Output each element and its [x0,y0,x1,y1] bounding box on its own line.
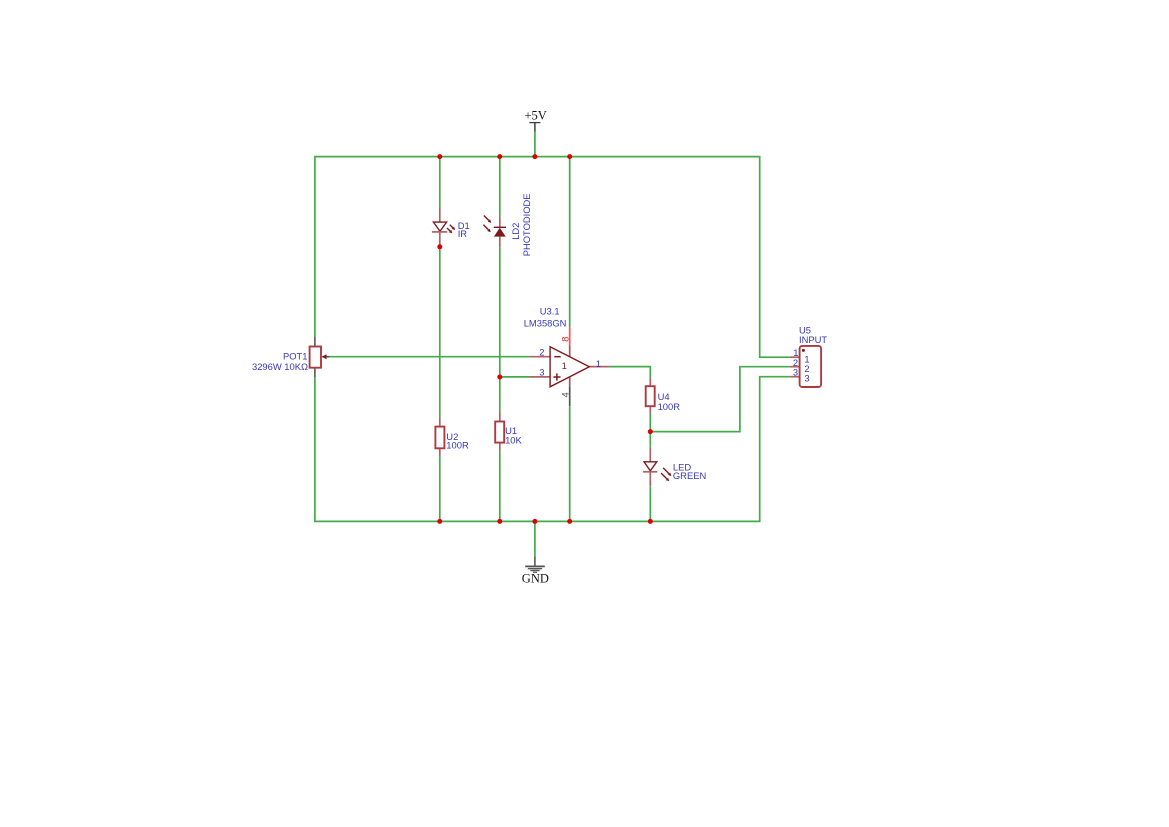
op-amp pin 3 stub [530,376,550,378]
LED GREEN [643,447,706,486]
svg-text:4: 4 [559,392,570,397]
svg-text:100R: 100R [446,439,469,450]
svg-text:3: 3 [539,367,544,378]
U5 pin1 marker dot [802,349,805,352]
power flag +5V [525,108,547,131]
wire op-amp pin8 supply [569,157,571,328]
wire D1 to U2 [439,247,441,418]
ground GND [522,556,549,585]
svg-text:PHOTODIODE: PHOTODIODE [521,193,532,256]
junction bottom rail at U1 [497,519,502,524]
wire LED lower [649,486,651,521]
op-amp pin 2 stub [530,356,550,358]
junction top rail at pin8 [567,154,572,159]
wire D1 branch upper [439,157,441,208]
op-amp minus sign [554,356,560,358]
wire U1 lower [499,451,501,521]
resistor U1 10K [495,412,522,451]
junction top rail at LD2 [497,154,502,159]
svg-text:1: 1 [596,358,601,369]
svg-text:3: 3 [804,372,809,383]
U5 pin stub 3 [790,376,800,378]
U5 pin stub 1 [790,356,800,358]
junction bottom rail at pin4 [567,519,572,524]
wire left lower + bottom rail + U5 pin3 feed [315,377,790,522]
svg-text:U3.1: U3.1 [540,306,560,317]
svg-text:100R: 100R [658,401,681,412]
svg-text:LD2: LD2 [510,223,521,240]
wire POT1 wiper to pin2 [329,356,530,358]
svg-text:POT1: POT1 [283,350,308,361]
wire U1 node to pin3 [500,376,530,378]
junction top rail at +5V [532,154,537,159]
svg-text:3296W 10KΩ: 3296W 10KΩ [252,361,308,372]
junction bottom rail at U2 [437,519,442,524]
wire +5V stub [534,132,536,157]
potentiometer POT1 [252,337,329,377]
U5 pin stub 2 [790,366,800,368]
svg-text:2: 2 [539,347,544,358]
resistor U2 100R [435,418,469,457]
svg-text:+5V: +5V [525,108,547,122]
wire LD2 branch upper [499,157,501,217]
junction U1 node pin3 [497,375,502,380]
connector U5 INPUT [790,325,828,387]
wire GND stub [534,521,536,556]
svg-text:1: 1 [562,360,567,371]
junction top rail at D1 [437,154,442,159]
junction bottom rail at LED [648,519,653,524]
svg-text:GREEN: GREEN [673,470,706,481]
junction U4 LED node [648,429,653,434]
wire op-amp output to U4 [610,367,650,378]
wire node to U5 pin2 [650,367,790,432]
svg-text:INPUT: INPUT [799,334,827,345]
junction bottom rail at GND [532,519,537,524]
svg-text:IR: IR [458,228,468,239]
wire op-amp pin4 down [569,406,571,521]
diode D1 IR LED [432,207,470,247]
wire U4 to node [649,414,651,448]
svg-text:GND: GND [522,572,549,586]
op-amp plus sign [553,376,560,378]
op-amp pin 1 output stub [589,366,610,368]
junction D1 cathode [437,244,442,249]
svg-text:10K: 10K [505,435,522,446]
svg-text:8: 8 [560,337,571,342]
wire top rail + left upper + U5 pin1 feed [315,157,790,358]
op-amp U3.1 LM358GN [524,306,610,407]
wire U2 lower [439,456,441,521]
op-amp pin 4 segment [569,376,571,386]
resistor U4 100R [646,378,681,414]
photodiode LD2 [483,193,532,256]
svg-text:3: 3 [793,367,798,378]
wire LD2 to U1 [499,247,501,412]
svg-text:LM358GN: LM358GN [524,318,567,329]
op-amp pin 8 segment [569,327,571,345]
op-amp triangle body [550,347,589,387]
